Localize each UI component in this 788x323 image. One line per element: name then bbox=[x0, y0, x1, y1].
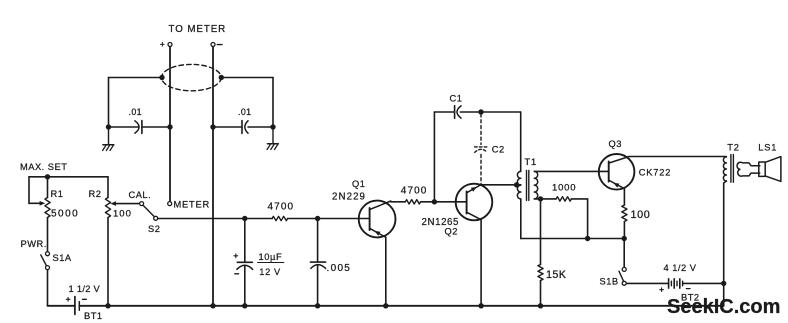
capacitor .01 (left) bbox=[109, 126, 139, 128]
transistor Q3 bbox=[599, 154, 635, 190]
node C1 branch bbox=[432, 199, 437, 204]
battery BT1 polarity - bbox=[83, 298, 87, 300]
wire collector feedback bus bbox=[521, 238, 624, 240]
wire 1000 right drop bbox=[587, 199, 589, 239]
battery BT1 bbox=[74, 297, 76, 315]
svg-text:.01: .01 bbox=[238, 107, 251, 117]
svg-text:C2: C2 bbox=[492, 145, 505, 155]
svg-text:CK722: CK722 bbox=[639, 167, 671, 177]
capacitor C1 bbox=[454, 106, 456, 119]
svg-text:METER: METER bbox=[174, 200, 211, 210]
wire R1 wiper loop bbox=[28, 177, 30, 204]
svg-text:Q3: Q3 bbox=[609, 139, 622, 149]
svg-text:15K: 15K bbox=[546, 269, 567, 281]
switch S2 bbox=[140, 202, 144, 206]
switch S1A bbox=[46, 252, 50, 256]
switch S1B bbox=[623, 239, 625, 268]
battery BT1 polarity + bbox=[66, 298, 70, 300]
wire top loop left bbox=[434, 111, 454, 113]
wire top-left rail bbox=[29, 176, 108, 178]
capacitor .005 lead bbox=[317, 219, 319, 263]
wire meter - lead bbox=[212, 47, 214, 306]
wire Q1 collector bbox=[391, 201, 406, 203]
svg-text:1 1/2 V: 1 1/2 V bbox=[69, 284, 101, 294]
wire right bypass drop bbox=[272, 78, 274, 127]
wire to Q2 base bbox=[421, 201, 467, 203]
node right column battery bbox=[721, 281, 726, 286]
node 1000 bottom bbox=[585, 236, 590, 241]
capacitor C2 (phantom) upper lead bbox=[480, 114, 482, 145]
node 15K rail bbox=[538, 303, 543, 308]
wire Q2 collector drop bbox=[480, 220, 482, 306]
svg-text:BT1: BT1 bbox=[84, 311, 103, 321]
battery BT2 bbox=[668, 279, 670, 288]
wire T1 secondary bottom bbox=[534, 198, 540, 200]
capacitor 10uF plates bbox=[237, 261, 252, 263]
node left of loop bbox=[159, 75, 164, 80]
svg-text:PWR.: PWR. bbox=[21, 239, 47, 249]
svg-text:LS1: LS1 bbox=[758, 142, 777, 152]
node left cap left bbox=[106, 124, 111, 129]
capacitor C2 (phantom) plates bbox=[475, 146, 488, 148]
svg-text:4700: 4700 bbox=[268, 202, 295, 213]
node right cap right bbox=[270, 124, 275, 129]
svg-text:5000: 5000 bbox=[51, 209, 79, 220]
resistor 15K bbox=[540, 199, 542, 265]
svg-text:Q2: Q2 bbox=[445, 226, 458, 236]
capacitor 10uF polarity + bbox=[234, 255, 238, 257]
transistor Q2 bbox=[456, 184, 493, 221]
transistor Q1 bbox=[359, 201, 396, 238]
svg-text:10µF: 10µF bbox=[259, 252, 283, 262]
resistor 100 (Q3 emitter) bbox=[623, 189, 625, 205]
wire R2 wiper to S2 bbox=[116, 203, 140, 205]
svg-text:SeekIC.com: SeekIC.com bbox=[667, 296, 780, 318]
node left cap right bbox=[167, 124, 172, 129]
svg-text:R2: R2 bbox=[89, 189, 102, 199]
capacitor .01 (right) bbox=[213, 126, 242, 128]
loudspeaker LS1 bbox=[759, 162, 765, 176]
svg-text:Q1: Q1 bbox=[352, 179, 365, 189]
wire loop to right bypass bbox=[222, 77, 273, 79]
wire top loop drop bbox=[520, 112, 522, 171]
svg-text:100: 100 bbox=[631, 209, 651, 221]
wire main bus bbox=[158, 218, 272, 220]
capacitor 10uF polarity - bbox=[235, 273, 239, 275]
svg-text:C1: C1 bbox=[450, 94, 463, 104]
capacitor 10uF lead bbox=[244, 219, 246, 263]
wire T2 primary bottom drop bbox=[724, 181, 727, 183]
battery BT2 polarity - bbox=[686, 288, 690, 290]
transformer T1 core bbox=[526, 170, 528, 200]
node rail meter minus bbox=[210, 303, 215, 308]
wire Q2 emitter to T1 tap bbox=[481, 184, 521, 186]
transformer T1 primary bbox=[517, 171, 520, 199]
svg-text:.005: .005 bbox=[327, 263, 352, 274]
potentiometer R2 bbox=[107, 177, 109, 198]
svg-text:2N229: 2N229 bbox=[332, 191, 366, 202]
capacitor .005 lower lead bbox=[317, 266, 319, 306]
svg-text:S1B: S1B bbox=[600, 277, 619, 287]
transformer T2 core bbox=[730, 155, 732, 183]
resistor 4700 (second) bbox=[405, 200, 420, 204]
node T1 tap bbox=[514, 182, 519, 187]
resistor 1000 bbox=[541, 198, 557, 200]
meter + terminal bbox=[168, 43, 172, 47]
wire T1 primary bottom drop bbox=[520, 199, 522, 239]
battery BT2 polarity + bbox=[660, 289, 664, 291]
wire bottom rail bbox=[48, 305, 75, 307]
meter - terminal bbox=[211, 43, 215, 47]
wire S1B to BT2 bbox=[626, 282, 668, 284]
wire C1 branch riser bbox=[433, 112, 435, 202]
node Q2 collector rail bbox=[478, 303, 483, 308]
wire loop to left bypass bbox=[109, 77, 162, 79]
svg-text:MAX. SET: MAX. SET bbox=[20, 162, 67, 172]
svg-text:T1: T1 bbox=[525, 157, 537, 167]
node right cap left bbox=[210, 124, 215, 129]
wire left bypass drop bbox=[108, 78, 110, 127]
node .005 top bbox=[315, 216, 320, 221]
svg-text:12 V: 12 V bbox=[259, 267, 281, 277]
ground (left) bbox=[108, 127, 110, 145]
node 10uF top bbox=[242, 216, 247, 221]
wire Q3 collector to T2 bbox=[629, 156, 726, 158]
svg-text:+: + bbox=[160, 39, 165, 49]
wire top loop right bbox=[460, 111, 520, 113]
twisted pair loop (dashed ellipse) bbox=[162, 64, 222, 90]
resistor 4700 (first) bbox=[272, 216, 288, 220]
svg-text:1000: 1000 bbox=[552, 182, 576, 193]
svg-text:4 1/2 V: 4 1/2 V bbox=[664, 263, 697, 273]
svg-text:S2: S2 bbox=[148, 224, 160, 234]
wire meter + lead bbox=[169, 47, 171, 202]
svg-text:R1: R1 bbox=[51, 189, 64, 199]
capacitor .005 plates bbox=[311, 261, 326, 263]
node .005 bottom bbox=[315, 303, 320, 308]
svg-text:CAL.: CAL. bbox=[129, 190, 152, 200]
meter terminal node bbox=[168, 202, 172, 206]
capacitor C2 (phantom) lower lead bbox=[480, 155, 482, 185]
svg-text:4700: 4700 bbox=[401, 185, 428, 196]
node S1B top bbox=[622, 236, 627, 241]
node C2 top bbox=[478, 109, 483, 114]
node 10uF bottom bbox=[242, 303, 247, 308]
transformer T2 secondary (voice-coil loops) bbox=[737, 162, 760, 176]
svg-text:100: 100 bbox=[113, 208, 132, 219]
node rail R2 bbox=[105, 303, 110, 308]
transformer T1 secondary bbox=[534, 171, 537, 199]
node R1 top bbox=[45, 174, 50, 179]
R2 wiper arrow bbox=[110, 201, 116, 206]
svg-text:S1A: S1A bbox=[53, 253, 72, 263]
transformer T2 primary bbox=[723, 157, 726, 181]
wire BT2 to right column bbox=[683, 282, 724, 284]
R1 wiper arrow bbox=[40, 201, 46, 206]
wire T1 secondary top to Q3 base bbox=[534, 170, 608, 172]
svg-text:TO METER: TO METER bbox=[169, 24, 227, 35]
ground (right) bbox=[272, 127, 274, 144]
node T1 secondary bottom bbox=[538, 196, 543, 201]
wire Q1 emitter to rail bbox=[385, 237, 387, 305]
node Q1 emitter rail bbox=[383, 303, 388, 308]
node right of loop bbox=[219, 75, 224, 80]
capacitor 10uF lower lead bbox=[244, 266, 246, 306]
svg-text:T2: T2 bbox=[727, 142, 739, 152]
svg-text:.01: .01 bbox=[129, 107, 142, 117]
potentiometer R1 bbox=[47, 177, 49, 198]
